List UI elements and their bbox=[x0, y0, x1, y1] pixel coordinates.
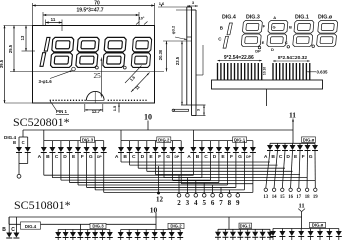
pin 8 terminal bbox=[228, 194, 232, 198]
svg-text:φ3.2: φ3.2 bbox=[171, 25, 176, 34]
diode DIG.2-C bbox=[137, 141, 139, 147]
slanted dimension 1.6 segment width bbox=[125, 66, 142, 84]
dimension 20.30 bbox=[166, 41, 168, 72]
pin 17 terminal bbox=[297, 188, 300, 191]
svg-text:F: F bbox=[230, 154, 233, 160]
diode DIG.1-G bbox=[243, 141, 245, 147]
side view body bbox=[186, 7, 188, 105]
decimal point middle bbox=[96, 66, 99, 69]
diode DIG.1b-4 bbox=[239, 229, 241, 232]
svg-text:SC520801*: SC520801* bbox=[13, 115, 70, 129]
pin 3 terminal bbox=[186, 194, 190, 198]
diode DIG.1-E bbox=[226, 141, 228, 147]
wire DIG.2 common bar bbox=[121, 140, 181, 142]
diode DIG.2-A bbox=[120, 141, 122, 147]
digit 8 second bbox=[76, 37, 100, 67]
svg-text:2: 2 bbox=[177, 199, 181, 207]
svg-text:9*2.54=22.86: 9*2.54=22.86 bbox=[224, 55, 254, 61]
svg-text:DP: DP bbox=[97, 155, 102, 159]
dimension 11 first digit offset bbox=[46, 22, 63, 24]
svg-text:G: G bbox=[166, 154, 170, 160]
label DIG.&#248; box bottom bbox=[310, 222, 326, 227]
diode DIG.&#248;b-1 bbox=[272, 229, 274, 232]
baseline witness line bbox=[10, 71, 164, 73]
wire DIG.2 drop bottom bbox=[155, 229, 157, 231]
diode DIG.2-G bbox=[172, 141, 174, 147]
diode DIG.&#248;-D bbox=[292, 143, 294, 145]
diode DIG.3-A bbox=[43, 141, 45, 147]
label DIG.3 box bbox=[81, 137, 95, 143]
svg-text:10.16: 10.16 bbox=[263, 67, 267, 75]
wire pin10 riser bbox=[147, 121, 149, 131]
svg-text:G: G bbox=[238, 154, 242, 160]
wire DIG.1 common riser bbox=[192, 130, 194, 141]
svg-text:G: G bbox=[89, 154, 93, 160]
svg-text:C: C bbox=[22, 140, 25, 145]
diode DIG.3-E bbox=[77, 141, 79, 147]
digit 8 first bbox=[50, 37, 74, 67]
wire pin11 riser bbox=[292, 119, 294, 131]
diode DIG.2b-4 bbox=[145, 230, 147, 233]
label DIG.4 box bottom bbox=[21, 222, 41, 229]
digit 8 DIG.3 bbox=[241, 21, 262, 47]
wire DIG.2 common riser bbox=[120, 130, 122, 141]
wire DIG.4 bottom feed C bbox=[15, 217, 17, 233]
dimension 23.5 bbox=[181, 41, 183, 105]
diode DIG.3-B bbox=[51, 141, 53, 147]
diode DIG.1-D bbox=[218, 141, 220, 147]
diode DIG.2-DP bbox=[180, 141, 182, 147]
digit 8 DIG.2 with segment labels bbox=[267, 21, 288, 47]
svg-text:11: 11 bbox=[289, 111, 296, 120]
diode DIG.&#248;-C bbox=[284, 143, 286, 145]
dimension 70 overall width bbox=[33, 5, 155, 7]
decimal point right bbox=[123, 66, 126, 69]
diode DIG.1b-3 bbox=[232, 229, 234, 232]
diode DIG.2b-1 bbox=[120, 230, 122, 233]
svg-text:DIG.3: DIG.3 bbox=[246, 15, 260, 21]
svg-text:3-φ1.6: 3-φ1.6 bbox=[39, 79, 53, 84]
svg-text:7: 7 bbox=[219, 199, 223, 207]
svg-text:14: 14 bbox=[272, 195, 277, 200]
wire DIG.1 drop bottom bbox=[228, 217, 230, 229]
polarity notch semicircle bbox=[86, 91, 104, 100]
diode DIG.3b-1 bbox=[57, 230, 59, 233]
svg-text:11: 11 bbox=[299, 203, 305, 210]
svg-text:C: C bbox=[285, 40, 288, 45]
svg-text:70: 70 bbox=[94, 0, 100, 6]
digit 8 third bbox=[103, 37, 127, 67]
svg-text:1.5: 1.5 bbox=[112, 105, 117, 111]
dimension 3 stand-off bbox=[203, 105, 205, 116]
svg-text:23.5: 23.5 bbox=[175, 56, 180, 65]
svg-text:B: B bbox=[271, 154, 275, 160]
wire DIG.4 cathodes join bbox=[18, 153, 20, 164]
svg-text:DP: DP bbox=[255, 49, 261, 54]
wire pin11 vee bbox=[298, 209, 301, 212]
svg-text:DIG.ø: DIG.ø bbox=[303, 137, 315, 142]
pin 13 terminal bbox=[264, 188, 267, 191]
pin 9 terminal bbox=[236, 194, 240, 198]
dimension 1.5 bbox=[118, 104, 120, 113]
wire DIG.0 drops pins 13-19 bbox=[266, 151, 270, 189]
wire diode feeds DIG.4 bbox=[18, 137, 20, 147]
diode DIG.2b-7 bbox=[171, 230, 173, 233]
diode DIG.1b-1 bbox=[217, 229, 219, 232]
pin 16 terminal bbox=[289, 188, 292, 191]
diode DIG.3-C bbox=[60, 141, 62, 147]
digit 8 DIG.1 bbox=[293, 21, 314, 47]
wire DIG.&#248; bar bottom bbox=[273, 228, 339, 230]
label DIG.2 box bottom bbox=[168, 223, 184, 228]
wire bottom rail upper bbox=[9, 216, 302, 218]
wire DIG.4 bar bbox=[19, 136, 28, 138]
diode DIG.3-D bbox=[69, 141, 71, 147]
digit 1 (segments B C) bbox=[40, 37, 50, 66]
diode DIG.&#248;-B bbox=[277, 143, 279, 145]
wire bottom rail lower bbox=[9, 223, 156, 225]
diode DIG.1-DP bbox=[252, 141, 254, 147]
diode DIG.2-B bbox=[129, 141, 131, 147]
pin comb right group bbox=[273, 63, 310, 80]
wire DIG.1 bar bottom bbox=[218, 228, 270, 230]
svg-text:B: B bbox=[2, 227, 6, 233]
pin 12 terminal bbox=[157, 192, 160, 195]
diode DIG.2b-2 bbox=[128, 230, 130, 233]
diode DIG.3b-2 bbox=[65, 230, 67, 233]
svg-text:D: D bbox=[271, 47, 274, 52]
pin 19 terminal bbox=[314, 188, 317, 191]
diode DIG.1-C bbox=[209, 141, 211, 147]
svg-text:DIG.ø: DIG.ø bbox=[318, 15, 333, 21]
pin 2 terminal bbox=[177, 194, 181, 198]
dimension 39.5 bbox=[4, 26, 6, 104]
diode DIG.4-C bbox=[25, 147, 31, 153]
witness line side-view to comb bbox=[196, 74, 203, 76]
diode DIG.3b-7 bbox=[101, 230, 103, 233]
wire segment bus lines bbox=[43, 153, 45, 176]
svg-text:19.5*3=47.7: 19.5*3=47.7 bbox=[76, 8, 103, 14]
svg-text:15: 15 bbox=[280, 195, 285, 200]
dimension 3 top bbox=[187, 5, 198, 7]
diode DIG.3b-6 bbox=[94, 230, 96, 233]
diode DIG.2b-3 bbox=[137, 230, 139, 233]
svg-text:DIG.1: DIG.1 bbox=[295, 15, 309, 21]
dimension 12.7 bbox=[84, 104, 86, 112]
svg-text:D: D bbox=[213, 154, 217, 160]
svg-text:25: 25 bbox=[94, 72, 102, 80]
svg-text:4: 4 bbox=[194, 199, 198, 207]
svg-text:DIG.3: DIG.3 bbox=[92, 224, 104, 229]
svg-text:C: C bbox=[132, 154, 136, 160]
svg-text:A: A bbox=[38, 154, 42, 160]
svg-text:DIG.4: DIG.4 bbox=[25, 224, 37, 229]
svg-text:0.635: 0.635 bbox=[317, 70, 329, 75]
svg-text:3: 3 bbox=[186, 199, 190, 207]
svg-text:D: D bbox=[141, 154, 145, 160]
diode DIG.1b-7 bbox=[262, 229, 264, 232]
side view pin lead bbox=[174, 109, 189, 111]
wire DIG.2 bar bottom bbox=[121, 229, 181, 231]
svg-text:DIG.3: DIG.3 bbox=[82, 137, 94, 142]
svg-text:F: F bbox=[81, 154, 84, 160]
diode DIG.&#248;b-7 bbox=[328, 229, 330, 232]
svg-text:C: C bbox=[204, 154, 208, 160]
digit 8 DIG.0 bbox=[316, 21, 337, 47]
svg-text:10°: 10° bbox=[139, 17, 145, 21]
pin 1 terminal bbox=[17, 174, 21, 178]
svg-text:8*2.54=20.32: 8*2.54=20.32 bbox=[278, 55, 308, 61]
wire DIG.3 bar bottom bbox=[58, 229, 110, 231]
wire DIG.3 common bar bbox=[44, 140, 104, 142]
wire pin11 drop bbox=[301, 212, 303, 229]
diode DIG.4b-B bbox=[6, 233, 12, 239]
svg-text:12: 12 bbox=[156, 196, 164, 204]
svg-text:17: 17 bbox=[296, 195, 301, 200]
wire pin 12 bbox=[158, 166, 160, 192]
label DIG.1 box bottom bbox=[239, 223, 252, 228]
mounting hole left bbox=[72, 67, 76, 71]
svg-text:E: E bbox=[262, 40, 265, 45]
svg-text:A: A bbox=[115, 154, 119, 160]
svg-text:13: 13 bbox=[20, 35, 25, 40]
svg-text:DIG.4: DIG.4 bbox=[222, 15, 236, 21]
svg-text:G: G bbox=[273, 24, 276, 29]
svg-text:10: 10 bbox=[144, 113, 152, 122]
diode DIG.4b-C bbox=[13, 233, 19, 239]
wire top rail bbox=[23, 129, 293, 131]
diode DIG.1b-6 bbox=[254, 229, 256, 232]
svg-text:D: D bbox=[63, 154, 67, 160]
decimal point DIG.3 bbox=[258, 46, 261, 49]
front view body outline bbox=[33, 26, 155, 104]
seating plane line bbox=[181, 104, 206, 106]
svg-text:B: B bbox=[123, 154, 127, 160]
svg-text:SC510801*: SC510801* bbox=[14, 198, 71, 212]
diode DIG.3b-8 bbox=[109, 230, 111, 233]
diode DIG.2-E bbox=[154, 141, 156, 147]
svg-text:18: 18 bbox=[305, 195, 310, 200]
wire DIG.&#248; drop bottom bbox=[301, 228, 303, 230]
svg-text:B: B bbox=[289, 25, 292, 30]
dimension 0.635 pin width bbox=[307, 71, 316, 73]
wire rails left join bbox=[8, 217, 10, 224]
diode DIG.1-A bbox=[192, 141, 194, 147]
svg-text:20.30: 20.30 bbox=[158, 49, 163, 60]
diode DIG.&#248;b-3 bbox=[291, 229, 293, 232]
diode DIG.&#248;b-6 bbox=[319, 229, 321, 232]
diode DIG.&#248;b-4 bbox=[300, 229, 302, 232]
diode DIG.&#248;-E bbox=[299, 143, 301, 145]
svg-text:A: A bbox=[273, 15, 276, 20]
diode DIG.&#248;-G bbox=[314, 143, 316, 145]
svg-text:DIG.1: DIG.1 bbox=[240, 223, 252, 228]
diode DIG.3-G bbox=[94, 141, 96, 147]
diode DIG.3-DP bbox=[103, 141, 105, 147]
dimension 1.6 lip bbox=[158, 6, 187, 8]
pin 5 terminal bbox=[202, 194, 206, 198]
pin 15 terminal bbox=[281, 188, 284, 191]
dimension 19.5*3=47.7 digit pitch bbox=[43, 14, 139, 16]
wire to pin 1 bbox=[18, 164, 20, 175]
pin 7 terminal bbox=[219, 194, 223, 198]
dimension 25 centerline bbox=[100, 58, 102, 98]
dimension 13 bbox=[25, 26, 27, 52]
svg-text:5: 5 bbox=[202, 199, 206, 207]
header base bar bbox=[212, 80, 323, 89]
svg-text:C: C bbox=[11, 227, 15, 233]
label DIG.3 box bottom bbox=[90, 223, 106, 228]
svg-text:25.5: 25.5 bbox=[8, 44, 13, 53]
angle 10 deg tilt marks bbox=[136, 22, 140, 25]
svg-text:G: G bbox=[309, 154, 313, 160]
svg-text:11: 11 bbox=[51, 17, 56, 22]
svg-text:6: 6 bbox=[211, 199, 215, 207]
svg-text:B: B bbox=[13, 140, 16, 145]
wire DIG.4 bottom feed B bbox=[8, 217, 10, 233]
decimal point DIG.2 bbox=[287, 46, 290, 49]
label DIG.1 box bbox=[233, 137, 247, 143]
svg-text:DIG.ø: DIG.ø bbox=[312, 223, 324, 228]
pin comb left group bbox=[218, 63, 262, 80]
diode DIG.&#248;-A bbox=[269, 143, 271, 145]
svg-text:12.7: 12.7 bbox=[92, 109, 101, 114]
wire DIG.3 drop bottom bbox=[80, 224, 82, 229]
svg-text:13: 13 bbox=[263, 195, 268, 200]
svg-text:A: A bbox=[264, 154, 268, 160]
diode DIG.1-F bbox=[235, 141, 237, 147]
svg-text:B: B bbox=[196, 154, 200, 160]
decimal point DIG.1 bbox=[312, 45, 315, 48]
diode DIG.2b-5 bbox=[154, 230, 156, 233]
diode DIG.1b-5 bbox=[247, 229, 249, 232]
svg-text:DP: DP bbox=[246, 155, 251, 159]
wire DIG.&#248; common bar bbox=[270, 142, 315, 144]
svg-text:C: C bbox=[55, 154, 59, 160]
svg-text:16: 16 bbox=[288, 195, 293, 200]
svg-text:D: D bbox=[286, 154, 290, 160]
dimension 25.5 bbox=[13, 26, 15, 73]
svg-text:F: F bbox=[158, 154, 161, 160]
diode DIG.3b-5 bbox=[87, 230, 89, 233]
label DIG.2 box bbox=[157, 137, 171, 143]
digit 1 right view bbox=[223, 23, 232, 48]
svg-text:F: F bbox=[302, 154, 305, 160]
slanted dimension 11 digit width bbox=[131, 73, 150, 93]
diode DIG.3b-4 bbox=[79, 230, 81, 233]
svg-text:39.5: 39.5 bbox=[0, 59, 4, 68]
wire DIG.4 stub bbox=[22, 130, 24, 137]
diode DIG.&#248;b-2 bbox=[281, 229, 283, 232]
svg-text:9: 9 bbox=[236, 199, 240, 207]
diode DIG.3b-3 bbox=[72, 230, 74, 233]
svg-text:A: A bbox=[187, 154, 191, 160]
pin 4 terminal bbox=[194, 194, 198, 198]
diode DIG.&#248;b-5 bbox=[310, 229, 312, 232]
diode DIG.4-B bbox=[16, 147, 22, 153]
diode DIG.2-F bbox=[163, 141, 165, 147]
diode DIG.2b-6 bbox=[162, 230, 164, 233]
diode DIG.1b-2 bbox=[224, 229, 226, 232]
svg-text:PIN 1: PIN 1 bbox=[56, 109, 68, 114]
wire DIG.1 common bar bbox=[193, 140, 253, 142]
svg-text:DIG.2: DIG.2 bbox=[170, 224, 182, 229]
pin 14 terminal bbox=[272, 188, 275, 191]
diode DIG.&#248;-F bbox=[307, 143, 309, 145]
svg-text:8: 8 bbox=[228, 199, 232, 207]
diode DIG.&#248;b-8 bbox=[338, 229, 340, 232]
wire DIG.&#248; common riser bbox=[292, 130, 294, 143]
side view hole marks bbox=[187, 36, 192, 38]
digit 8 fourth bbox=[131, 37, 152, 67]
diode DIG.1-B bbox=[201, 141, 203, 147]
diode DIG.3-F bbox=[86, 141, 88, 147]
pin dots row bbox=[50, 99, 147, 101]
label DIG.&#248; box bbox=[302, 137, 316, 143]
wire DIG.3 common riser bbox=[43, 130, 45, 141]
label PIN 1 with leader bbox=[50, 101, 57, 111]
diode DIG.2-D bbox=[146, 141, 148, 147]
svg-text:C: C bbox=[279, 154, 283, 160]
wire pin10 riser bottom bbox=[155, 213, 157, 230]
pin 6 terminal bbox=[211, 194, 215, 198]
center lead line bbox=[266, 89, 268, 106]
svg-text:19: 19 bbox=[313, 195, 318, 200]
svg-text:B: B bbox=[46, 154, 50, 160]
svg-text:DP: DP bbox=[174, 155, 179, 159]
diode DIG.1b-8 bbox=[269, 229, 271, 232]
pin 18 terminal bbox=[305, 188, 308, 191]
diode DIG.2b-8 bbox=[179, 230, 181, 233]
